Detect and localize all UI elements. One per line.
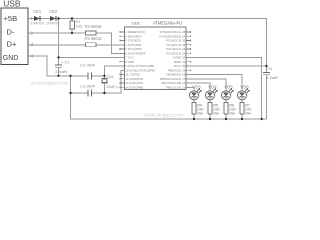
svg-text:electe.blogspot.com: electe.blogspot.com — [31, 80, 69, 85]
svg-text:VD6: VD6 — [240, 84, 249, 89]
svg-text:3.3мкФ: 3.3мкФ — [55, 70, 68, 74]
svg-text:ATMEGA8A-PU: ATMEGA8A-PU — [153, 21, 182, 26]
svg-text:Ом: Ом — [229, 111, 235, 115]
svg-text:4: 4 — [31, 54, 34, 60]
svg-text:C4: C4 — [268, 67, 273, 71]
svg-text:2: 2 — [31, 31, 34, 37]
svg-text:D-: D- — [7, 28, 15, 37]
svg-text:C2 16пФ: C2 16пФ — [80, 63, 95, 67]
svg-text:Ом: Ом — [197, 111, 203, 115]
svg-text:VD4: VD4 — [208, 84, 217, 89]
svg-text:VD2: VD2 — [49, 9, 58, 14]
svg-text:USB: USB — [3, 0, 21, 9]
svg-text:VD3: VD3 — [192, 84, 201, 89]
svg-text:12МГц: 12МГц — [106, 85, 118, 89]
svg-text:+ C1: + C1 — [61, 59, 70, 64]
svg-text:DD1: DD1 — [132, 21, 141, 26]
svg-text:4.7мкФ: 4.7мкФ — [267, 76, 279, 80]
svg-text:14 (ICP1)PB0: 14 (ICP1)PB0 — [125, 85, 143, 89]
svg-text:VD1: VD1 — [33, 9, 42, 14]
svg-text:D+: D+ — [7, 39, 17, 48]
svg-text:R3 68Ом: R3 68Ом — [85, 36, 102, 41]
svg-text:Ом: Ом — [213, 111, 219, 115]
svg-text:VD5: VD5 — [224, 84, 233, 89]
svg-text:R2 68Ом: R2 68Ом — [85, 24, 102, 29]
svg-text:3: 3 — [31, 42, 34, 48]
svg-text:+5В: +5В — [4, 14, 18, 23]
svg-text:C3 16пФ: C3 16пФ — [80, 85, 95, 89]
svg-text:GND: GND — [3, 55, 19, 62]
svg-text:1к5: 1к5 — [76, 24, 83, 29]
svg-text:1N4005: 1N4005 — [46, 22, 59, 26]
svg-text:PB1(OC1A) 15: PB1(OC1A) 15 — [166, 85, 186, 89]
svg-text:Ом: Ом — [245, 111, 251, 115]
svg-text:electe.blogspot.com: electe.blogspot.com — [144, 113, 183, 118]
svg-text:ZQ1: ZQ1 — [107, 75, 114, 79]
svg-text:1N4005: 1N4005 — [31, 22, 44, 26]
